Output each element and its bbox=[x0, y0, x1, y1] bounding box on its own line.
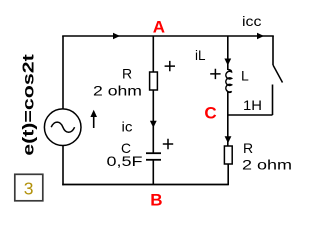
resistor R2 (right) body bbox=[224, 146, 232, 164]
capacitor C1 bottom plate bbox=[146, 159, 161, 161]
svg-text:1H: 1H bbox=[243, 97, 262, 113]
arrow top-left wire bbox=[113, 33, 120, 40]
svg-text:3: 3 bbox=[24, 179, 34, 199]
svg-text:0,5F: 0,5F bbox=[107, 153, 143, 169]
svg-text:2 ohm: 2 ohm bbox=[93, 83, 142, 99]
wire right resistor lower bbox=[227, 164, 229, 185]
wire middle branch lower bbox=[152, 160, 154, 185]
svg-text:e(t)=cos2t: e(t)=cos2t bbox=[21, 53, 38, 155]
svg-text:R: R bbox=[243, 140, 253, 156]
wire middle branch upper bbox=[152, 36, 154, 73]
wire bottom horizontal B-line bbox=[62, 184, 229, 186]
inductor L1 coil bbox=[226, 70, 232, 93]
svg-text:A: A bbox=[153, 17, 165, 36]
arrow node C down bbox=[225, 136, 232, 143]
svg-text:iL: iL bbox=[195, 47, 206, 63]
plus sign inductor bbox=[210, 69, 220, 79]
source e(t) circle U1 bbox=[44, 109, 81, 146]
capacitor C1 top plate bbox=[146, 152, 161, 154]
source sine wave bbox=[51, 122, 74, 132]
arrow iL down bbox=[224, 59, 231, 66]
svg-text:2 ohm: 2 ohm bbox=[242, 156, 292, 172]
arrow ic down bbox=[150, 121, 157, 128]
wire left vertical upper bbox=[62, 36, 64, 109]
plus sign middle resistor bbox=[165, 61, 175, 71]
svg-text:ic: ic bbox=[122, 119, 133, 135]
plus sign capacitor bbox=[163, 139, 173, 149]
svg-text:icc: icc bbox=[242, 13, 262, 29]
wire left vertical lower bbox=[62, 146, 64, 186]
wire middle branch mid bbox=[152, 90, 154, 153]
wire switch branch upper bbox=[272, 36, 274, 65]
switch S1 blade bbox=[273, 65, 283, 83]
resistor R1 (middle) body bbox=[150, 72, 158, 90]
wire top horizontal A-line bbox=[62, 35, 274, 37]
wire node C horizontal bbox=[228, 114, 273, 116]
figure number box bbox=[15, 174, 43, 201]
svg-text:L: L bbox=[241, 67, 249, 83]
wire inductor branch upper bbox=[227, 36, 229, 70]
svg-text:C: C bbox=[204, 104, 216, 123]
arrow top-right wire bbox=[257, 33, 264, 40]
wire switch branch lower bbox=[272, 85, 274, 116]
wire inductor branch to node C bbox=[227, 92, 229, 147]
arrow source current up bbox=[93, 114, 95, 128]
svg-text:B: B bbox=[150, 190, 162, 209]
svg-text:R: R bbox=[122, 66, 132, 82]
